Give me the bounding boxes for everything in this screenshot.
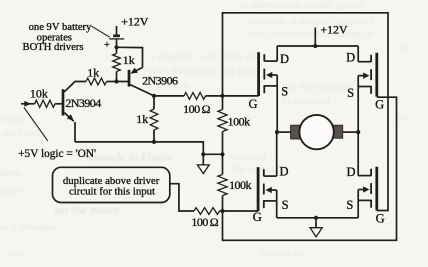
- junction dot +12V rail: [313, 44, 317, 48]
- net driver1 gate line (up, across top, down): [223, 13, 389, 211]
- svg-text:100k: 100k: [228, 114, 251, 128]
- junction dot (pulldown midpoint): [220, 152, 224, 156]
- resistor R2 1k (pull-up, vertical): [113, 54, 121, 72]
- wire +12V stub: [314, 28, 316, 47]
- svg-text:llor is bocu: llor is bocu: [230, 164, 278, 175]
- resistor R4 1k (gate discharge, vertical): [150, 109, 158, 130]
- svg-text:1k: 1k: [87, 65, 99, 79]
- svg-text:D: D: [346, 165, 355, 179]
- ground symbol GND2: [315, 218, 317, 228]
- svg-text:BOTH drivers: BOTH drivers: [23, 42, 84, 53]
- svg-text:100 Ω: 100 Ω: [191, 215, 218, 229]
- svg-text:S: S: [346, 198, 353, 212]
- svg-text:G: G: [376, 211, 385, 225]
- svg-text:+5V logic = 'ON': +5V logic = 'ON': [18, 148, 96, 160]
- motor M1 body: [299, 115, 333, 149]
- wire node A to Q2 emitter: [117, 47, 143, 67]
- resistor R3 1k (collector load of Q1, horizontal): [86, 78, 107, 85]
- svg-text:+12V: +12V: [320, 22, 347, 36]
- junction dot motor left node: [275, 130, 279, 134]
- transistor Q2 2N3906 (PNP): [129, 68, 154, 96]
- svg-text:G: G: [375, 98, 384, 112]
- svg-text:wob tart: wob tart: [230, 151, 266, 163]
- input arrow (driver 1 input): [21, 103, 35, 105]
- Q4 source wire to motor node: [357, 87, 359, 133]
- Q6 source wire: [357, 200, 359, 217]
- junction dot (ground tap): [201, 152, 205, 156]
- svg-text:100k: 100k: [229, 178, 252, 192]
- svg-text:+: +: [104, 40, 110, 51]
- svg-text:no bam ah: no bam ah: [260, 248, 304, 259]
- net driver2 gate line (down, across bottom, up): [223, 97, 397, 240]
- battery B1 (9V): [109, 26, 124, 47]
- junction dot driver2 node: [220, 209, 224, 213]
- resistor R1 10k (input, horizontal): [35, 100, 55, 107]
- duplicate driver note box: [53, 167, 170, 202]
- svg-text:a single IC and MOS doad: a single IC and MOS doad: [150, 51, 268, 63]
- motor M1 terminal block right: [334, 125, 343, 138]
- svg-text:ed for your par: ed for your par: [286, 81, 352, 93]
- svg-text:S: S: [282, 198, 289, 212]
- svg-text:S: S: [347, 86, 354, 100]
- svg-text:S: S: [281, 85, 288, 99]
- svg-text:u nwode ni Figure: u nwode ni Figure: [85, 150, 173, 164]
- svg-text:circuit for this input: circuit for this input: [69, 185, 155, 197]
- Q3 drain wire: [276, 46, 278, 61]
- Q6 drain wire to motor node: [357, 132, 359, 176]
- svg-text:2N3904: 2N3904: [65, 96, 101, 110]
- svg-text:D: D: [279, 165, 288, 179]
- svg-text:bir the motor: bir the motor: [55, 203, 121, 217]
- wire motor left: [277, 131, 291, 133]
- MOSFET Q3 (top-left, N-channel): [259, 52, 278, 96]
- svg-text:1k: 1k: [123, 53, 135, 67]
- wire Q1 emitter ground rail: [75, 142, 223, 154]
- svg-text:100 Ω: 100 Ω: [183, 102, 210, 116]
- wire driver2 node to Q5 gate: [223, 210, 259, 212]
- junction dot (Q2 collector node): [152, 94, 156, 98]
- MOSFET Q5 (bottom-left, N-channel): [258, 167, 277, 211]
- junction dot ground tap (bridge): [314, 216, 318, 220]
- ground symbol GND1: [202, 154, 204, 164]
- svg-text:this circuit requires wiring o: this circuit requires wiring on: [250, 29, 375, 40]
- svg-text:io ahermatich awileb golarii: io ahermatich awileb golarii: [240, 0, 364, 11]
- callout line from +5V note to input: [24, 108, 48, 141]
- wire motor right: [343, 131, 359, 133]
- Q5 source wire: [276, 201, 278, 218]
- Q5 drain wire to motor node: [276, 132, 278, 176]
- callout line to battery: [92, 26, 111, 37]
- svg-text:m: m: [12, 250, 20, 261]
- svg-text:D: D: [280, 52, 289, 66]
- svg-text:1k: 1k: [136, 112, 148, 126]
- resistor R6 100 ohm (driver2 output): [194, 208, 220, 215]
- svg-text:network, a simpler umdsvcb: network, a simpler umdsvcb: [250, 15, 375, 27]
- svg-text:ms: ms: [398, 112, 410, 123]
- svg-text:G: G: [253, 210, 262, 224]
- wire box to R6: [170, 184, 194, 211]
- svg-text:been: been: [3, 113, 24, 125]
- wire +12V rail: [277, 45, 358, 47]
- junction dot motor right node: [356, 130, 360, 134]
- MOSFET Q4 (top-right, N-channel): [358, 53, 377, 97]
- note text: one 9V battery operates BOTH drivers: [23, 22, 93, 53]
- wire node B to Q2 base: [117, 81, 128, 83]
- svg-text:10k: 10k: [30, 87, 48, 101]
- transistor Q1 2N3904 (NPN): [63, 82, 86, 142]
- svg-text:ant bosd: ant bosd: [2, 127, 39, 139]
- junction dot (R4 to ground rail): [152, 140, 156, 144]
- svg-text:omis: omis: [0, 185, 21, 197]
- svg-text:D: D: [346, 50, 355, 64]
- Q3 source wire to motor node: [276, 86, 278, 132]
- svg-text:be adjusted: be adjusted: [282, 96, 330, 107]
- svg-text:as a ahoumd: as a ahoumd: [0, 221, 55, 233]
- svg-text:dn: dn: [398, 42, 408, 53]
- MOSFET Q6 (bottom-right, N-channel): [358, 167, 377, 211]
- svg-text:G: G: [248, 97, 257, 111]
- wire bottom source rail: [277, 217, 359, 219]
- svg-text:+12V: +12V: [121, 14, 148, 28]
- resistor R7 100k (upper pulldown): [218, 110, 227, 132]
- Q4 drain wire: [357, 46, 359, 62]
- node B junction dot: [114, 79, 118, 83]
- resistor R5 100 ohm (driver1 output): [154, 95, 184, 97]
- motor M1 terminal block left: [291, 125, 300, 139]
- svg-text:2N3906: 2N3906: [142, 74, 178, 88]
- node A junction dot (battery to rail): [114, 45, 118, 49]
- resistor R8 100k (lower pulldown): [218, 175, 227, 196]
- svg-text:deep: deep: [0, 167, 21, 179]
- wire driver1 node to Q3 gate: [223, 95, 259, 97]
- junction dot driver1 node: [220, 94, 224, 98]
